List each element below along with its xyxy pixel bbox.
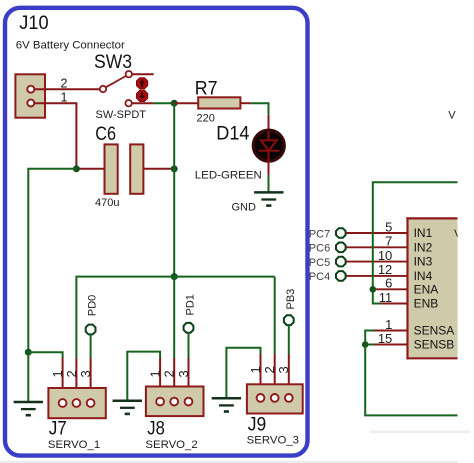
svg-text:6V Battery Connector: 6V Battery Connector <box>16 40 125 52</box>
svg-text:1: 1 <box>385 317 392 332</box>
svg-text:IN4: IN4 <box>414 269 433 283</box>
wire to J7 pin1 <box>28 352 62 357</box>
svg-text:PC6: PC6 <box>309 243 330 255</box>
connector J10 <box>15 74 45 117</box>
svg-text:V: V <box>448 109 456 121</box>
wire ENA ENB tie <box>373 289 381 303</box>
junction node ENA <box>370 286 377 293</box>
white cover right edge <box>458 0 474 463</box>
switch throw 2 stub <box>132 102 154 104</box>
junction node SENS <box>362 341 369 348</box>
svg-text:PC5: PC5 <box>309 257 330 269</box>
wire SENSA elbow <box>365 331 374 345</box>
svg-text:SW-SPDT: SW-SPDT <box>96 109 147 121</box>
svg-text:J7: J7 <box>49 419 67 440</box>
pin IN1 wire <box>346 232 408 234</box>
svg-text:GND: GND <box>232 202 257 214</box>
module shadow bottom <box>0 461 474 463</box>
ground <box>113 401 142 414</box>
svg-text:3: 3 <box>78 370 93 377</box>
svg-text:PD1: PD1 <box>185 294 197 315</box>
svg-text:7: 7 <box>385 234 392 249</box>
svg-text:SERVO_1: SERVO_1 <box>48 439 100 451</box>
wire rail B to J8 <box>173 277 175 358</box>
subcircuit module border J10 <box>5 8 308 456</box>
wire J7 pin2 stub <box>75 358 77 400</box>
svg-text:3: 3 <box>176 370 191 377</box>
svg-text:D14: D14 <box>216 123 250 144</box>
junction node C6 left <box>73 165 80 172</box>
wire LED anode stub <box>268 115 270 131</box>
wire LED cathode stub <box>268 162 270 175</box>
wire ground rail to ground <box>27 352 29 401</box>
switch actuator up arrow <box>137 78 148 89</box>
pin IN4 wire <box>346 275 408 277</box>
pin IN3 wire <box>346 261 408 263</box>
wire PD1 to J8 pin3 <box>188 333 190 358</box>
svg-text:PD0: PD0 <box>87 295 99 316</box>
wire J7 pin3 stub <box>90 358 92 400</box>
svg-text:11: 11 <box>379 290 393 305</box>
window edge artifact <box>370 431 470 434</box>
wire R7 to LED corner <box>240 102 250 104</box>
pin ENB wire <box>381 303 408 305</box>
pin ENA wire <box>373 288 408 290</box>
svg-text:SW3: SW3 <box>94 52 132 73</box>
wire junction to C6 <box>76 168 104 170</box>
svg-text:1: 1 <box>148 370 163 377</box>
wire J9 pin1 stub <box>260 354 262 394</box>
svg-text:220: 220 <box>197 113 215 125</box>
switch throw 1 pin <box>126 71 132 77</box>
wire J7 pin1 stub <box>62 358 64 400</box>
ground <box>14 402 43 415</box>
svg-text:1: 1 <box>61 91 68 105</box>
svg-text:LED-GREEN: LED-GREEN <box>195 170 262 182</box>
svg-text:ENA: ENA <box>414 283 439 297</box>
wire SENS down <box>365 345 457 416</box>
svg-text:SENSA: SENSA <box>414 323 455 337</box>
ground <box>254 192 283 205</box>
svg-text:1: 1 <box>248 366 263 373</box>
LED D14 diode symbol <box>259 131 280 162</box>
junction node switch output <box>171 100 178 107</box>
wire PD0 to J7 pin3 <box>90 334 92 358</box>
wire ground rail left <box>28 169 76 352</box>
svg-text:SERVO_3: SERVO_3 <box>247 434 299 446</box>
wire junction to R7 <box>174 102 198 104</box>
svg-text:SERVO_2: SERVO_2 <box>145 439 197 451</box>
junction node rail B <box>171 273 178 280</box>
wire supply horizontal <box>76 277 274 358</box>
switch actuator down arrow <box>137 90 148 101</box>
svg-text:J10: J10 <box>19 13 48 34</box>
wire J9 pin3 stub <box>288 354 290 394</box>
junction node ground rail <box>25 349 32 356</box>
connector J7 <box>48 388 105 418</box>
switch pole arm <box>106 76 126 87</box>
svg-text:6: 6 <box>385 276 392 291</box>
terminal PC5 <box>336 257 346 267</box>
terminal PC6 <box>336 243 346 253</box>
wire J10 pin2 to SW3 <box>35 88 100 90</box>
driver IC U (partial) <box>406 217 457 359</box>
terminal PB3 <box>284 315 294 325</box>
pin SENSB wire <box>374 344 408 346</box>
terminal PC4 <box>336 271 346 281</box>
connector J9 <box>247 384 303 413</box>
switch throw 2 pin <box>125 100 131 106</box>
wire to J9 pin2 <box>274 277 276 354</box>
ground <box>212 398 241 411</box>
svg-text:15: 15 <box>378 331 392 346</box>
svg-text:5: 5 <box>385 219 392 234</box>
svg-text:ENB: ENB <box>414 297 439 311</box>
resistor R7 <box>198 97 240 108</box>
wire J10 pin1 down <box>35 103 77 169</box>
svg-text:IN3: IN3 <box>414 255 433 269</box>
wire J8 pin1 to ground <box>127 352 160 400</box>
svg-text:PB3: PB3 <box>285 289 297 310</box>
svg-text:J8: J8 <box>147 418 165 439</box>
pin IN2 wire <box>346 246 408 248</box>
connector J8 <box>146 387 204 417</box>
svg-text:PC7: PC7 <box>309 228 330 240</box>
wire J9 pin2 stub <box>274 354 276 394</box>
wire to ground <box>268 175 270 192</box>
wire J9 pin1 to ground <box>226 348 260 398</box>
svg-text:2: 2 <box>64 370 79 377</box>
svg-text:2: 2 <box>61 77 68 91</box>
svg-text:3: 3 <box>276 366 291 373</box>
wire C6 to rail B <box>143 168 174 170</box>
capacitor C6 <box>105 144 144 193</box>
svg-text:PC4: PC4 <box>309 271 330 283</box>
terminal PD0 <box>86 325 96 335</box>
wire rail B vertical <box>173 103 175 276</box>
svg-text:470u: 470u <box>95 197 119 209</box>
svg-text:10: 10 <box>378 248 392 263</box>
svg-text:1: 1 <box>50 370 65 377</box>
junction node C6 right <box>171 165 178 172</box>
pin SENSA wire <box>374 330 408 332</box>
svg-text:IN1: IN1 <box>414 226 433 240</box>
terminal PD1 <box>184 323 194 333</box>
wire <box>251 103 269 115</box>
wire J8 pin3 stub <box>188 358 190 398</box>
svg-text:2: 2 <box>262 366 277 373</box>
wire J8 pin1 stub <box>159 358 161 398</box>
wire J8 pin2 stub <box>173 358 175 398</box>
switch throw 1 stub <box>132 73 154 75</box>
LED D14 body <box>253 130 284 161</box>
terminal PC7 <box>336 228 346 238</box>
svg-text:C6: C6 <box>95 124 116 145</box>
switch SW3 common pin <box>100 86 106 92</box>
svg-text:2: 2 <box>162 370 177 377</box>
svg-text:SENSB: SENSB <box>414 337 455 351</box>
svg-text:J9: J9 <box>248 415 266 436</box>
svg-text:IN2: IN2 <box>414 240 433 254</box>
wire ENA supply <box>373 182 458 289</box>
wire switch to junction <box>154 102 175 104</box>
wire PB3 to J9 pin3 <box>288 325 290 354</box>
